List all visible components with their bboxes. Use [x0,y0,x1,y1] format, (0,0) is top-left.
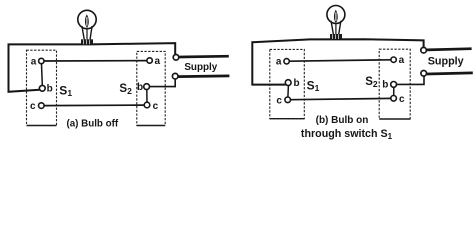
supply bottom terminal (diagram a) [172,73,178,79]
svg-text:a: a [276,57,282,68]
svg-text:a: a [31,56,37,67]
lamp B1 envelope (bulb, diagram a) [78,10,96,28]
terminal b of S2 (diagram b) [391,82,397,88]
wire a-a (diagram b) [289,60,391,61]
svg-text:(b) Bulb on: (b) Bulb on [316,115,369,126]
switch blade S2 b-to-c (diagram b) [393,87,395,95]
svg-text:a: a [399,55,405,66]
terminal c of S1 (diagram b) [285,97,291,103]
svg-text:c: c [30,101,36,112]
svg-text:b: b [47,83,53,94]
terminal a of S1 (diagram b) [284,59,289,64]
lamp B2 screw base [330,34,342,39]
svg-text:S2: S2 [119,83,132,96]
switch blade S1 b-to-c (diagram b: closed position) [287,86,290,98]
switch S1 enclosure (dashed box, diagram a) [27,50,57,125]
svg-text:c: c [153,101,159,112]
supply line bottom (diagram a) [179,75,230,78]
wire: outer loop left diagram (b-feed, left edge, top run, drop to supply top) [9,43,176,92]
switch blade S1 b-to-a (diagram a: open position) [41,64,44,86]
svg-text:Supply: Supply [428,56,464,68]
svg-text:b: b [137,82,143,93]
wire S2-b to supply bottom terminal (diagram b) [397,76,425,84]
terminal a of S1 (diagram a) [39,58,44,63]
lamp B1 filament [85,14,89,28]
svg-text:b: b [382,80,388,91]
supply top terminal (diagram a) [173,55,179,61]
terminal a of S2 (diagram b) [391,57,396,62]
terminal a of S2 (diagram a) [147,58,152,63]
terminal b of S2 (diagram a) [144,84,150,90]
switch S2 enclosure (dashed box, diagram b) [379,49,410,119]
lamp B1 screw base [81,39,93,44]
supply line top (diagram b) [427,49,472,50]
wire c-c (diagram b) [291,98,391,99]
switch S2 enclosure (dashed box, diagram a) [137,51,165,125]
svg-text:S1: S1 [59,83,72,98]
supply line top (diagram a) [179,55,229,58]
lamp B2 neck [331,21,341,35]
svg-text:Supply: Supply [184,62,217,73]
lamp B2 envelope (bulb, diagram b) [327,6,345,24]
terminal c of S1 (diagram a) [39,103,45,109]
supply top terminal (diagram b) [421,47,427,53]
supply bottom terminal (diagram b) [421,71,427,77]
svg-text:a: a [155,56,161,67]
svg-text:S1: S1 [307,78,320,93]
svg-text:(a) Bulb off: (a) Bulb off [66,118,118,129]
svg-text:through switch S1: through switch S1 [301,128,393,141]
terminal c of S2 (diagram b) [391,96,397,102]
svg-text:c: c [276,96,282,107]
lamp B2 filament [334,10,338,23]
svg-text:S2: S2 [365,76,378,89]
wire c-c (diagram a) [44,104,144,107]
wire: outer loop right diagram (b-feed, left edge, top run, drop to supply top) [252,39,423,84]
supply line bottom (diagram b) [427,73,473,74]
terminal b of S1 (diagram a) [39,85,45,91]
terminal b of S1 (diagram b) [285,80,291,86]
switch blade S2 b-to-c (diagram a) [146,90,148,103]
svg-text:b: b [294,78,300,89]
switch S1 enclosure (dashed box, diagram b) [270,49,305,118]
switch box bottom edges (solid in scan) [27,119,411,126]
terminal c of S2 (diagram a) [144,102,150,108]
svg-text:c: c [399,94,405,105]
wire S2-b to supply bottom terminal (diagram a) [150,79,176,86]
wire a-a (diagram a) [44,60,147,62]
lamp B1 neck [82,26,92,40]
